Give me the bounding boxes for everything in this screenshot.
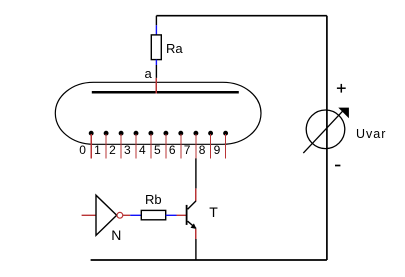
- source arrowhead: [338, 108, 349, 119]
- wire emitter to bottom rail (red then black): [195, 229, 197, 239]
- svg-text:4: 4: [139, 143, 146, 157]
- cathode lead wires (red): [91, 134, 225, 158]
- wire Ra to anode (blue, black, red): [155, 60, 157, 65]
- svg-text:6: 6: [169, 143, 176, 157]
- svg-text:T: T: [209, 204, 218, 220]
- inverter N: [96, 195, 117, 235]
- svg-text:1: 1: [94, 143, 101, 157]
- wire right rail: [326, 16, 328, 260]
- transistor T: [187, 201, 197, 229]
- digit labels 0-9: [79, 143, 220, 157]
- svg-text:N: N: [111, 227, 121, 243]
- svg-text:9: 9: [214, 143, 221, 157]
- svg-text:0: 0: [79, 143, 86, 157]
- label +: [337, 84, 346, 93]
- svg-text:5: 5: [154, 143, 161, 157]
- svg-text:7: 7: [184, 143, 191, 157]
- svg-text:Rb: Rb: [145, 192, 162, 207]
- svg-text:a: a: [145, 66, 153, 81]
- svg-text:Uvar: Uvar: [356, 127, 386, 141]
- svg-text:Ra: Ra: [166, 41, 183, 56]
- wire bubble to Rb (red then blue): [123, 214, 130, 216]
- wire Rb to base (blue then red): [166, 214, 177, 216]
- svg-text:3: 3: [124, 143, 131, 157]
- inverter N input wire (red): [82, 214, 96, 216]
- nixie tube envelope: [55, 82, 261, 144]
- wire top rail: [156, 15, 327, 17]
- wire from top rail to Ra (black then blue): [155, 16, 157, 26]
- wire anode lead (red): [155, 78, 157, 94]
- cathode dots: [89, 131, 228, 136]
- source Uvar circle: [306, 110, 345, 149]
- wire bottom rail: [91, 259, 327, 261]
- svg-text:8: 8: [199, 143, 206, 157]
- resistor Ra: [151, 35, 161, 60]
- inverter bubble: [117, 212, 123, 218]
- source arrow line: [303, 110, 344, 153]
- label -: [335, 165, 340, 167]
- resistor Rb: [141, 210, 165, 219]
- anode bar: [92, 91, 239, 94]
- wire cathode 7 to collector (black then red): [195, 158, 197, 188]
- svg-text:2: 2: [109, 143, 116, 157]
